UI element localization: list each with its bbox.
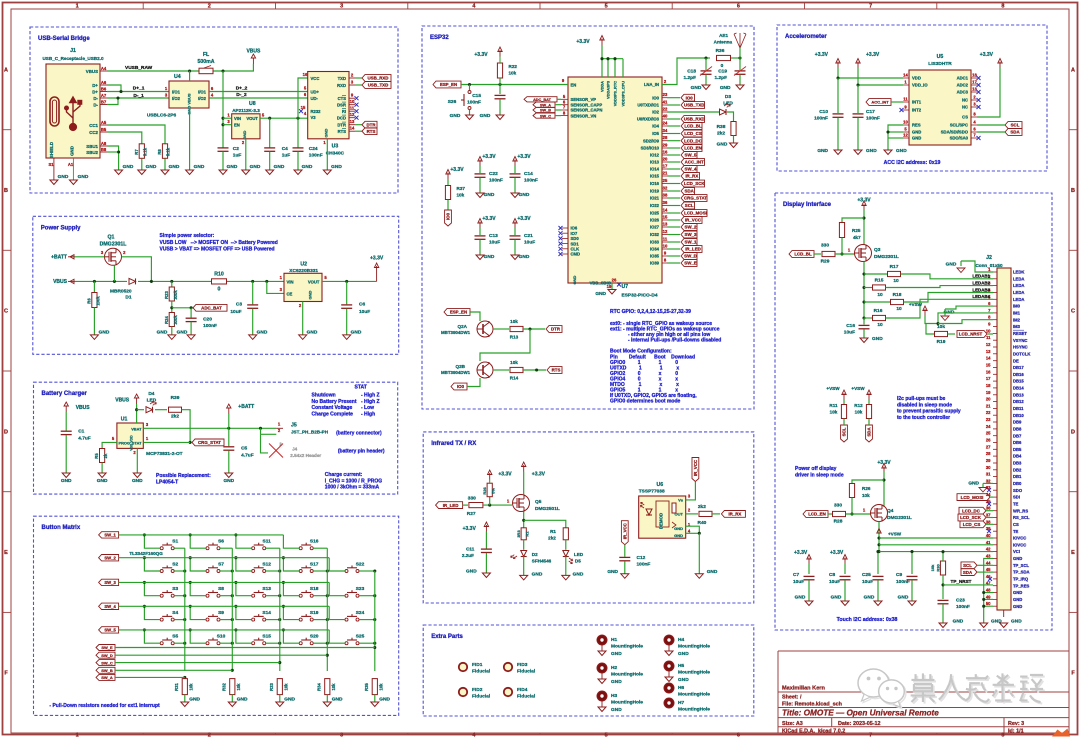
svg-text:LCD_MOSI: LCD_MOSI bbox=[684, 211, 707, 216]
svg-text:C17: C17 bbox=[866, 109, 875, 115]
svg-text:27: 27 bbox=[986, 444, 991, 449]
svg-text:U3: U3 bbox=[332, 144, 339, 150]
svg-text:J4: J4 bbox=[292, 447, 298, 452]
svg-text:Simple power selector:: Simple power selector: bbox=[160, 233, 215, 239]
svg-text:Q2A: Q2A bbox=[458, 324, 468, 329]
svg-text:41: 41 bbox=[663, 100, 668, 105]
svg-text:SD3/IO10: SD3/IO10 bbox=[641, 146, 660, 151]
svg-text:A: A bbox=[1071, 67, 1075, 73]
svg-text:2: 2 bbox=[208, 733, 211, 737]
svg-text:GND: GND bbox=[674, 533, 683, 538]
svg-text:I/O1: I/O1 bbox=[198, 90, 207, 95]
svg-text:R17: R17 bbox=[890, 264, 899, 270]
svg-text:C7: C7 bbox=[793, 572, 799, 578]
svg-text:LCD_CS: LCD_CS bbox=[963, 522, 981, 527]
svg-text:5: 5 bbox=[605, 4, 608, 10]
svg-text:4k7: 4k7 bbox=[853, 235, 861, 240]
svg-text:GND: GND bbox=[691, 85, 702, 91]
svg-text:DB4: DB4 bbox=[1013, 454, 1022, 459]
svg-text:10k: 10k bbox=[509, 71, 517, 76]
svg-text:S16: S16 bbox=[310, 539, 319, 545]
svg-text:GND: GND bbox=[532, 572, 543, 578]
svg-text:GND: GND bbox=[484, 192, 495, 198]
svg-text:IM2: IM2 bbox=[1013, 317, 1021, 322]
svg-text:22: 22 bbox=[986, 410, 991, 415]
svg-text:B6: B6 bbox=[101, 86, 107, 91]
svg-text:R6: R6 bbox=[87, 298, 92, 304]
svg-text:VSYNC: VSYNC bbox=[1013, 338, 1027, 343]
svg-text:ADC_BAT: ADC_BAT bbox=[533, 98, 552, 102]
svg-text:Date: 2023-05-12: Date: 2023-05-12 bbox=[838, 721, 881, 727]
svg-text:UD-: UD- bbox=[311, 96, 319, 101]
svg-text:R35: R35 bbox=[364, 682, 369, 690]
svg-text:15: 15 bbox=[663, 215, 668, 220]
svg-text:STAT: STAT bbox=[355, 385, 367, 391]
svg-text:S2: S2 bbox=[172, 562, 178, 568]
svg-text:LEDA: LEDA bbox=[1013, 297, 1024, 302]
svg-text:CRG_STAT: CRG_STAT bbox=[684, 196, 707, 201]
svg-text:IO21: IO21 bbox=[650, 196, 660, 201]
svg-text:Title: OMOTE — Open Universal: Title: OMOTE — Open Universal Remote bbox=[782, 708, 939, 717]
svg-text:B: B bbox=[1071, 188, 1075, 194]
svg-text:44: 44 bbox=[986, 560, 991, 565]
svg-text:GND: GND bbox=[331, 164, 342, 170]
svg-text:+3.3V: +3.3V bbox=[532, 472, 546, 478]
svg-text:40: 40 bbox=[986, 533, 991, 538]
svg-text:IO15: IO15 bbox=[650, 174, 660, 179]
svg-text:NC: NC bbox=[962, 105, 968, 110]
svg-text:C16: C16 bbox=[846, 323, 855, 329]
svg-text:LEDK: LEDK bbox=[1013, 270, 1024, 275]
svg-text:LEDA: LEDA bbox=[1013, 276, 1024, 281]
svg-text:R38: R38 bbox=[717, 124, 726, 130]
svg-text:GND VBUS: GND VBUS bbox=[187, 93, 192, 114]
svg-text:+BATT: +BATT bbox=[238, 404, 254, 410]
svg-text:SDA: SDA bbox=[867, 427, 872, 437]
svg-text:Constant Voltage: Constant Voltage bbox=[312, 405, 353, 411]
svg-text:H4: H4 bbox=[678, 637, 684, 643]
svg-text:LED: LED bbox=[574, 552, 584, 557]
svg-text:32: 32 bbox=[986, 478, 991, 483]
svg-text:CRG_STAT: CRG_STAT bbox=[198, 440, 221, 445]
svg-text:C19: C19 bbox=[718, 69, 727, 75]
svg-text:U0TXD/IO1: U0TXD/IO1 bbox=[637, 103, 659, 108]
svg-text:R32: R32 bbox=[222, 682, 227, 690]
svg-text:GND: GND bbox=[227, 164, 238, 170]
svg-text:ESP_EN: ESP_EN bbox=[450, 310, 467, 315]
svg-text:330: 330 bbox=[821, 243, 829, 249]
svg-text:GND: GND bbox=[58, 174, 69, 180]
svg-text:VUSB_RAW: VUSB_RAW bbox=[125, 65, 153, 71]
svg-text:16: 16 bbox=[663, 150, 668, 155]
svg-text:31: 31 bbox=[986, 472, 991, 477]
svg-text:GND: GND bbox=[611, 679, 622, 685]
svg-text:LCD_DC: LCD_DC bbox=[684, 138, 703, 143]
svg-text:SW_2: SW_2 bbox=[104, 555, 116, 560]
svg-text:File: Remote.kicad_sch: File: Remote.kicad_sch bbox=[782, 702, 842, 708]
svg-text:VDD3P3_RTC: VDD3P3_RTC bbox=[613, 81, 618, 106]
svg-text:I_CHG = 1000 / R_PROG: I_CHG = 1000 / R_PROG bbox=[325, 478, 382, 484]
svg-text:GND: GND bbox=[99, 330, 110, 336]
svg-text:DB10: DB10 bbox=[1013, 413, 1024, 418]
svg-text:H6: H6 bbox=[678, 685, 684, 691]
svg-text:29: 29 bbox=[663, 143, 668, 148]
svg-text:IOVCC: IOVCC bbox=[1013, 542, 1026, 547]
svg-text:SW_5: SW_5 bbox=[104, 628, 116, 633]
svg-text:IO26: IO26 bbox=[650, 218, 660, 223]
svg-text:C: C bbox=[4, 309, 8, 315]
svg-text:RTC GPIO: 0,2,4,12-15,25-27,32: RTC GPIO: 0,2,4,12-15,25-27,32-39 bbox=[610, 309, 691, 315]
svg-text:DB1: DB1 bbox=[1013, 474, 1022, 479]
svg-text:6: 6 bbox=[737, 4, 740, 10]
svg-text:LP4054-T: LP4054-T bbox=[156, 480, 178, 486]
svg-text:MountingHole: MountingHole bbox=[678, 692, 710, 698]
svg-text:GND: GND bbox=[351, 330, 362, 336]
svg-text:IO4: IO4 bbox=[652, 124, 659, 129]
svg-text:SW_A: SW_A bbox=[101, 675, 113, 680]
svg-text:DB12: DB12 bbox=[1013, 399, 1024, 404]
svg-text:Fiducial: Fiducial bbox=[472, 694, 490, 700]
svg-text:1.2pF: 1.2pF bbox=[683, 75, 696, 81]
svg-text:S1: S1 bbox=[172, 539, 178, 545]
svg-text:R10: R10 bbox=[214, 272, 224, 278]
svg-text:19: 19 bbox=[607, 284, 612, 289]
svg-text:GND: GND bbox=[450, 113, 461, 119]
svg-text:IO25: IO25 bbox=[650, 211, 660, 216]
svg-text:GND: GND bbox=[872, 336, 883, 342]
svg-text:SENSOR_CAPN: SENSOR_CAPN bbox=[571, 108, 603, 113]
svg-text:CTS: CTS bbox=[338, 96, 347, 101]
svg-text:300k: 300k bbox=[173, 290, 178, 300]
svg-text:18: 18 bbox=[972, 73, 977, 78]
svg-text:LCD_BL: LCD_BL bbox=[794, 252, 812, 257]
svg-text:10: 10 bbox=[350, 99, 355, 104]
svg-text:Touch I2C address: 0x38: Touch I2C address: 0x38 bbox=[837, 617, 898, 623]
svg-text:VDD3P3_CPU: VDD3P3_CPU bbox=[621, 81, 626, 107]
svg-text:2k: 2k bbox=[103, 453, 108, 458]
svg-text:S3: S3 bbox=[172, 586, 178, 592]
svg-text:D-_1: D-_1 bbox=[133, 93, 144, 99]
svg-text:S23: S23 bbox=[356, 586, 365, 592]
svg-text:driver in sleep mode: driver in sleep mode bbox=[795, 473, 844, 479]
svg-text:IO32: IO32 bbox=[650, 232, 660, 237]
svg-text:IO27: IO27 bbox=[650, 225, 660, 230]
svg-text:XC6220B331: XC6220B331 bbox=[289, 268, 318, 274]
svg-text:DB11: DB11 bbox=[1013, 406, 1024, 411]
svg-text:IR_RX: IR_RX bbox=[685, 174, 698, 179]
svg-text:ESP32: ESP32 bbox=[430, 35, 449, 41]
svg-text:R16: R16 bbox=[874, 308, 883, 314]
svg-text:U2: U2 bbox=[300, 262, 307, 268]
svg-text:32: 32 bbox=[663, 186, 668, 191]
svg-text:LCD_DC: LCD_DC bbox=[962, 508, 981, 513]
svg-text:GND: GND bbox=[831, 595, 842, 601]
svg-text:SDO/SA0: SDO/SA0 bbox=[950, 136, 969, 141]
svg-text:FID1: FID1 bbox=[472, 662, 483, 668]
svg-text:VDD: VDD bbox=[912, 76, 921, 81]
svg-text:GND: GND bbox=[308, 290, 313, 299]
svg-text:GND: GND bbox=[720, 85, 731, 91]
svg-text:GND: GND bbox=[866, 148, 877, 154]
svg-text:DSR: DSR bbox=[337, 103, 346, 108]
svg-text:2k2: 2k2 bbox=[171, 414, 179, 420]
svg-text:SCL: SCL bbox=[842, 427, 847, 436]
svg-text:300k: 300k bbox=[173, 315, 178, 325]
svg-text:ACC_INT: ACC_INT bbox=[871, 100, 889, 105]
svg-text:VBUS: VBUS bbox=[86, 69, 98, 74]
svg-text:GND: GND bbox=[898, 595, 909, 601]
svg-text:- High Z: - High Z bbox=[361, 399, 380, 405]
svg-text:FID3: FID3 bbox=[517, 662, 528, 668]
svg-text:D5: D5 bbox=[575, 559, 581, 564]
svg-text:+3.3V: +3.3V bbox=[815, 52, 829, 58]
svg-text:GND: GND bbox=[864, 595, 875, 601]
svg-text:SCL: SCL bbox=[963, 563, 972, 568]
svg-text:C9: C9 bbox=[896, 572, 902, 578]
svg-text:SCL: SCL bbox=[685, 203, 694, 208]
svg-text:SW_4: SW_4 bbox=[104, 604, 116, 609]
svg-text:IR_VCC: IR_VCC bbox=[693, 459, 698, 476]
svg-text:10uF: 10uF bbox=[359, 309, 370, 315]
svg-text:GND: GND bbox=[61, 478, 72, 484]
svg-text:to prevent parasitic supply: to prevent parasitic supply bbox=[897, 409, 961, 415]
svg-text:DB5: DB5 bbox=[1013, 447, 1022, 452]
svg-text:GND: GND bbox=[78, 174, 89, 180]
svg-text:MBR0520: MBR0520 bbox=[110, 289, 132, 295]
svg-text:LCD_BL: LCD_BL bbox=[684, 124, 702, 129]
svg-text:OUT: OUT bbox=[675, 512, 684, 517]
svg-text:5.1k: 5.1k bbox=[166, 147, 171, 156]
svg-text:LEDA: LEDA bbox=[1013, 283, 1024, 288]
svg-text:R14: R14 bbox=[510, 376, 519, 381]
svg-text:A: A bbox=[4, 67, 8, 73]
svg-text:IO12: IO12 bbox=[650, 153, 660, 158]
svg-text:SW_5: SW_5 bbox=[685, 153, 698, 158]
svg-text:D+: D+ bbox=[92, 83, 98, 88]
svg-text:Vs: Vs bbox=[678, 498, 684, 503]
svg-text:10k: 10k bbox=[830, 410, 838, 415]
svg-text:R36: R36 bbox=[716, 48, 725, 54]
svg-text:CC1: CC1 bbox=[89, 123, 98, 128]
svg-text:- Pull-Down resistors needed f: - Pull-Down resistors needed for ext1 in… bbox=[49, 703, 160, 709]
svg-text:Size: A3: Size: A3 bbox=[782, 721, 803, 727]
svg-text:GND: GND bbox=[707, 569, 718, 575]
svg-text:2k2: 2k2 bbox=[717, 131, 725, 137]
svg-text:R13: R13 bbox=[510, 335, 519, 340]
svg-text:37: 37 bbox=[986, 513, 991, 518]
svg-text:DB16: DB16 bbox=[1013, 372, 1024, 377]
svg-text:LCD_EN: LCD_EN bbox=[684, 146, 702, 151]
svg-text:16: 16 bbox=[303, 72, 308, 77]
svg-text:10k: 10k bbox=[189, 683, 194, 691]
svg-text:C14: C14 bbox=[524, 171, 533, 177]
svg-text:1.2pF: 1.2pF bbox=[714, 75, 727, 81]
svg-text:10uF: 10uF bbox=[489, 240, 500, 246]
svg-text:U4: U4 bbox=[174, 74, 181, 80]
svg-text:PROG: PROG bbox=[119, 440, 130, 445]
svg-text:D: D bbox=[4, 429, 8, 435]
svg-text:12: 12 bbox=[903, 133, 908, 138]
svg-text:C8: C8 bbox=[829, 572, 835, 578]
svg-text:12: 12 bbox=[350, 112, 355, 117]
svg-text:R2: R2 bbox=[524, 531, 529, 537]
svg-text:MountingHole: MountingHole bbox=[611, 644, 643, 650]
svg-text:GND: GND bbox=[595, 291, 606, 297]
svg-text:+3.3V: +3.3V bbox=[450, 167, 464, 173]
svg-text:(battery connector): (battery connector) bbox=[336, 431, 382, 437]
svg-text:13: 13 bbox=[350, 119, 355, 124]
svg-text:No Battery Present: No Battery Present bbox=[312, 399, 357, 405]
svg-text:GND: GND bbox=[146, 164, 157, 170]
svg-text:IO14: IO14 bbox=[650, 167, 660, 172]
svg-text:IM3: IM3 bbox=[1013, 324, 1021, 329]
svg-text:10uF: 10uF bbox=[844, 330, 855, 336]
svg-text:GND: GND bbox=[953, 619, 964, 625]
svg-text:INT2: INT2 bbox=[912, 108, 922, 113]
svg-text:GND: GND bbox=[572, 275, 577, 284]
svg-text:5%: 5% bbox=[491, 488, 496, 494]
svg-text:Rev: 3: Rev: 3 bbox=[1008, 721, 1024, 727]
svg-text:SD2/IO9: SD2/IO9 bbox=[643, 138, 660, 143]
svg-text:28: 28 bbox=[663, 135, 668, 140]
svg-text:B7: B7 bbox=[101, 99, 107, 104]
svg-text:4.7uF: 4.7uF bbox=[78, 436, 91, 442]
svg-text:R33: R33 bbox=[269, 682, 274, 690]
svg-text:GND: GND bbox=[611, 651, 622, 657]
svg-text:Infrared TX / RX: Infrared TX / RX bbox=[431, 441, 476, 447]
svg-text:43: 43 bbox=[986, 553, 991, 558]
svg-text:36: 36 bbox=[663, 200, 668, 205]
svg-text:+3.3V: +3.3V bbox=[517, 154, 531, 160]
svg-text:GND: GND bbox=[968, 481, 979, 487]
svg-text:1: 1 bbox=[76, 733, 79, 737]
svg-text:V3: V3 bbox=[311, 115, 317, 120]
svg-text:KiCad E.D.A. kicad 7.0.2: KiCad E.D.A. kicad 7.0.2 bbox=[782, 728, 845, 734]
svg-text:CS: CS bbox=[962, 115, 968, 120]
svg-text:SW_1: SW_1 bbox=[685, 240, 698, 245]
svg-text:TL3342F160QG: TL3342F160QG bbox=[129, 551, 163, 556]
svg-text:+VSW: +VSW bbox=[888, 532, 902, 537]
svg-text:JST_PH_B2B-PH: JST_PH_B2B-PH bbox=[291, 430, 329, 435]
svg-text:GND: GND bbox=[519, 254, 530, 260]
svg-text:GND: GND bbox=[194, 164, 205, 170]
svg-text:22: 22 bbox=[663, 107, 668, 112]
svg-text:C22: C22 bbox=[489, 171, 498, 177]
svg-text:R23: R23 bbox=[164, 290, 169, 298]
svg-text:D-: D- bbox=[93, 96, 98, 101]
svg-text:5: 5 bbox=[605, 733, 608, 737]
svg-text:11: 11 bbox=[986, 335, 991, 340]
svg-text:30: 30 bbox=[986, 465, 991, 470]
svg-text:D+: D+ bbox=[92, 89, 98, 94]
svg-text:DMG2501L: DMG2501L bbox=[535, 506, 560, 512]
svg-text:Power off display: Power off display bbox=[795, 466, 837, 472]
svg-text:D: D bbox=[1071, 429, 1075, 435]
svg-text:10k: 10k bbox=[937, 324, 945, 330]
svg-text:100nF: 100nF bbox=[467, 100, 481, 106]
svg-text:GND: GND bbox=[97, 478, 108, 484]
svg-text:C24: C24 bbox=[309, 146, 318, 152]
svg-text:8: 8 bbox=[1001, 4, 1004, 10]
svg-text:Fiducial: Fiducial bbox=[472, 669, 490, 675]
svg-text:25: 25 bbox=[986, 431, 991, 436]
svg-text:+VSW: +VSW bbox=[909, 302, 923, 307]
svg-text:S1: S1 bbox=[48, 162, 54, 167]
svg-text:TXD: TXD bbox=[338, 76, 346, 81]
svg-text:VBUS: VBUS bbox=[115, 398, 130, 404]
svg-text:21: 21 bbox=[986, 403, 991, 408]
svg-text:R28: R28 bbox=[834, 519, 843, 525]
svg-text:LCD_CS: LCD_CS bbox=[684, 131, 702, 136]
svg-text:SW_C: SW_C bbox=[101, 660, 113, 665]
svg-text:DB13: DB13 bbox=[1013, 392, 1024, 397]
svg-text:+VSW: +VSW bbox=[826, 386, 840, 391]
svg-text:10uF: 10uF bbox=[793, 579, 804, 585]
svg-text:TP_NRST: TP_NRST bbox=[951, 579, 972, 584]
svg-text:SW_1: SW_1 bbox=[104, 533, 116, 538]
svg-text:GND: GND bbox=[678, 677, 689, 683]
svg-text:TE: TE bbox=[1013, 502, 1019, 507]
svg-text:USB_C_Receptacle_USB2.0: USB_C_Receptacle_USB2.0 bbox=[42, 56, 103, 61]
svg-text:S14: S14 bbox=[262, 610, 271, 616]
svg-text:Fiducial: Fiducial bbox=[517, 694, 535, 700]
svg-text:+3.3V: +3.3V bbox=[463, 526, 477, 532]
svg-text:GND: GND bbox=[717, 142, 728, 148]
svg-text:MountingHole: MountingHole bbox=[678, 707, 710, 713]
svg-text:10k: 10k bbox=[510, 319, 518, 324]
svg-text:disabled in sleep mode: disabled in sleep mode bbox=[897, 402, 952, 408]
svg-text:17: 17 bbox=[972, 80, 977, 85]
svg-text:MCP73831-2-OT: MCP73831-2-OT bbox=[146, 451, 183, 457]
svg-text:IR_LED: IR_LED bbox=[685, 247, 701, 252]
svg-text:GND: GND bbox=[484, 254, 495, 260]
svg-text:H7: H7 bbox=[678, 700, 684, 706]
svg-text:WR_RS: WR_RS bbox=[1013, 508, 1028, 513]
svg-text:J2: J2 bbox=[986, 255, 992, 261]
svg-text:C25: C25 bbox=[862, 572, 871, 578]
svg-text:SENSOR_VP: SENSOR_VP bbox=[571, 97, 597, 102]
svg-text:GND: GND bbox=[480, 113, 491, 119]
svg-text:GND: GND bbox=[573, 572, 584, 578]
svg-text:GND: GND bbox=[157, 330, 168, 336]
svg-text:R39: R39 bbox=[171, 395, 180, 401]
svg-text:DB8: DB8 bbox=[1013, 427, 1022, 432]
svg-text:A5: A5 bbox=[101, 120, 107, 125]
svg-text:S20: S20 bbox=[310, 634, 319, 640]
svg-text:- High Z: - High Z bbox=[361, 393, 380, 399]
svg-text:4.7uF: 4.7uF bbox=[241, 453, 254, 459]
svg-text:C10: C10 bbox=[819, 109, 828, 115]
svg-text:+3.3V: +3.3V bbox=[482, 216, 496, 222]
svg-text:VSS VDD: VSS VDD bbox=[130, 435, 134, 451]
svg-text:1000 / 3kOhm = 333mA: 1000 / 3kOhm = 333mA bbox=[325, 485, 380, 491]
svg-text:LEDAB4: LEDAB4 bbox=[972, 294, 990, 299]
svg-text:28: 28 bbox=[986, 451, 991, 456]
svg-text:SW_C: SW_C bbox=[540, 114, 551, 118]
svg-text:A6: A6 bbox=[101, 80, 107, 85]
svg-text:DB15: DB15 bbox=[1013, 379, 1024, 384]
svg-text:HSYNC: HSYNC bbox=[1013, 345, 1028, 350]
svg-text:IR_LED: IR_LED bbox=[443, 503, 459, 508]
svg-text:TP_SDA: TP_SDA bbox=[1013, 570, 1030, 575]
svg-text:H5: H5 bbox=[678, 663, 684, 669]
svg-text:2.54x2 Header: 2.54x2 Header bbox=[290, 453, 321, 458]
svg-text:H3: H3 bbox=[611, 693, 617, 699]
svg-text:38: 38 bbox=[986, 519, 991, 524]
svg-text:Q5: Q5 bbox=[535, 499, 542, 505]
svg-text:VBAT: VBAT bbox=[131, 426, 142, 431]
svg-text:S22: S22 bbox=[356, 562, 365, 568]
